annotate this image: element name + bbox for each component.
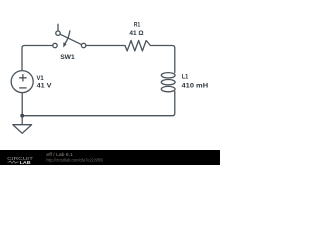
svg-text:LAB: LAB — [20, 160, 32, 165]
svg-text:R1: R1 — [134, 21, 140, 28]
voltage source V1 — [11, 71, 33, 93]
inductor L1 — [161, 73, 175, 92]
label SW1 — [60, 54, 75, 61]
svg-text:SW1: SW1 — [60, 54, 75, 61]
svg-text:http://circuitlab.com/c8a7e222: http://circuitlab.com/c8a7e2229f06 — [46, 157, 103, 162]
value 410 mH — [182, 82, 209, 89]
svg-text:410 mH: 410 mH — [182, 82, 209, 89]
label R1 — [134, 21, 140, 28]
ground — [13, 116, 32, 134]
footer watermark bar — [0, 150, 220, 165]
value 41 Ω — [129, 30, 144, 37]
wire: switch SW1 right terminal to resistor R1 left lead — [86, 45, 125, 47]
svg-text:L1: L1 — [182, 74, 189, 81]
label L1 — [182, 74, 189, 81]
resistor R1 — [125, 41, 150, 51]
footer text: title — [46, 152, 73, 157]
svg-text:eff / Lab 6.1: eff / Lab 6.1 — [46, 152, 73, 157]
node junction dot at ground — [20, 114, 24, 118]
CircuitLab logo — [7, 156, 33, 166]
svg-text:41 V: 41 V — [37, 83, 52, 90]
svg-text:V1: V1 — [37, 75, 44, 82]
wire: resistor R1 right lead to inductor L1 top — [150, 46, 174, 73]
wire top-left: V1 top to switch SW1 left terminal — [22, 46, 53, 71]
wire: V1 bottom to ground node — [21, 93, 23, 116]
svg-text:41 Ω: 41 Ω — [129, 30, 144, 37]
value 41 V — [37, 83, 52, 90]
switch SW1 — [53, 24, 86, 47]
footer text: url — [46, 157, 103, 162]
label V1 — [37, 75, 44, 82]
wire: inductor L1 bottom to bottom rail — [22, 92, 175, 116]
